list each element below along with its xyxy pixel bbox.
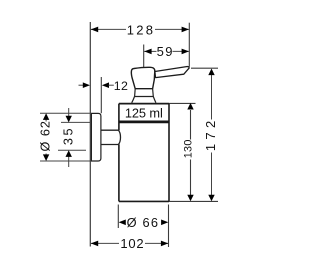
pump lever — [155, 67, 189, 78]
dimension 12 — [79, 79, 129, 93]
wall plate (escutcheon) — [91, 113, 101, 161]
extension line top (lever) — [191, 67, 218, 69]
svg-text:12: 12 — [114, 79, 128, 93]
pump neck — [134, 89, 153, 97]
bottle body — [119, 104, 169, 202]
wall line — [89, 22, 91, 247]
dimension 35 — [58, 108, 90, 167]
holder arm — [101, 130, 121, 144]
extension line right (lever tip) — [188, 23, 190, 67]
dimension 59 — [144, 44, 189, 59]
pump cap — [131, 67, 155, 88]
svg-text:125 ml: 125 ml — [125, 105, 163, 120]
svg-text:Ø 62: Ø 62 — [39, 120, 53, 151]
bottle top / extension for 130 — [119, 103, 169, 105]
svg-text:130: 130 — [183, 139, 195, 158]
svg-text:172: 172 — [203, 117, 218, 152]
extension lines bottom dims — [117, 205, 119, 229]
extension line bottom (bottle base) — [169, 200, 218, 202]
dimension Ø62 — [39, 113, 91, 161]
bottle label band line — [119, 121, 169, 124]
pump skirt — [132, 97, 156, 103]
dimension 172 — [203, 69, 218, 202]
extension line pump center — [143, 45, 145, 68]
dimension 130 — [183, 103, 195, 201]
extension line plate face — [100, 77, 102, 113]
dimension 128 — [91, 22, 189, 37]
svg-text:102: 102 — [120, 236, 144, 251]
svg-text:Ø 66: Ø 66 — [127, 215, 160, 230]
svg-text:59: 59 — [157, 44, 174, 59]
dimension Ø66 — [119, 215, 169, 230]
svg-text:128: 128 — [127, 22, 156, 37]
svg-text:35: 35 — [61, 126, 75, 145]
dimension 102 — [91, 236, 169, 251]
